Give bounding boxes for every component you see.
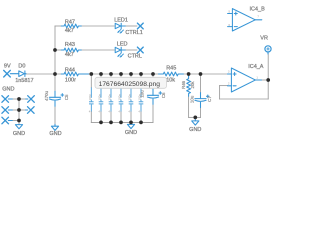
svg-text:4k7: 4k7: [65, 52, 74, 58]
svg-text:CTRL: CTRL: [128, 53, 142, 59]
svg-text:R46: R46: [181, 80, 186, 89]
svg-text:7: 7: [257, 15, 259, 19]
svg-text:R45: R45: [166, 65, 176, 71]
svg-text:100r: 100r: [65, 77, 76, 83]
svg-text:470u: 470u: [44, 90, 49, 101]
svg-text:C7: C7: [207, 96, 212, 102]
svg-text:D0: D0: [18, 64, 25, 70]
svg-text:10k: 10k: [166, 78, 175, 84]
svg-text:100n: 100n: [128, 94, 132, 101]
svg-text:LED: LED: [117, 41, 128, 47]
svg-text:LED1: LED1: [114, 17, 128, 23]
svg-text:C5: C5: [64, 94, 69, 100]
svg-text:9V: 9V: [4, 64, 11, 70]
svg-text:5: 5: [228, 9, 230, 13]
svg-text:100n: 100n: [118, 94, 122, 101]
svg-text:20k: 20k: [190, 81, 195, 89]
svg-text:VR: VR: [260, 36, 268, 42]
svg-text:100n: 100n: [88, 94, 92, 101]
svg-text:CTRL1: CTRL1: [125, 30, 142, 36]
svg-text:IC4_A: IC4_A: [248, 64, 264, 70]
svg-text:R43: R43: [65, 42, 75, 48]
svg-text:4k7: 4k7: [65, 28, 74, 34]
svg-text:2: 2: [228, 81, 230, 85]
svg-text:100n: 100n: [98, 94, 102, 101]
svg-text:6: 6: [228, 23, 230, 27]
svg-text:3: 3: [228, 69, 230, 73]
svg-text:GND: GND: [49, 131, 61, 137]
svg-text:GND: GND: [2, 87, 14, 93]
svg-text:10u: 10u: [189, 95, 194, 103]
svg-text:GND: GND: [13, 131, 25, 137]
svg-text:1767664025098.png: 1767664025098.png: [99, 81, 161, 88]
svg-text:IC4_B: IC4_B: [250, 6, 266, 12]
svg-text:1n5817: 1n5817: [15, 78, 33, 84]
svg-text:100n: 100n: [108, 94, 112, 101]
svg-text:100n: 100n: [138, 94, 142, 101]
svg-text:GND: GND: [189, 127, 201, 133]
svg-text:1: 1: [256, 75, 258, 79]
svg-text:C6: C6: [161, 92, 166, 98]
svg-text:GND: GND: [125, 130, 137, 136]
svg-text:R47: R47: [65, 20, 75, 26]
svg-text:R44: R44: [65, 67, 75, 73]
